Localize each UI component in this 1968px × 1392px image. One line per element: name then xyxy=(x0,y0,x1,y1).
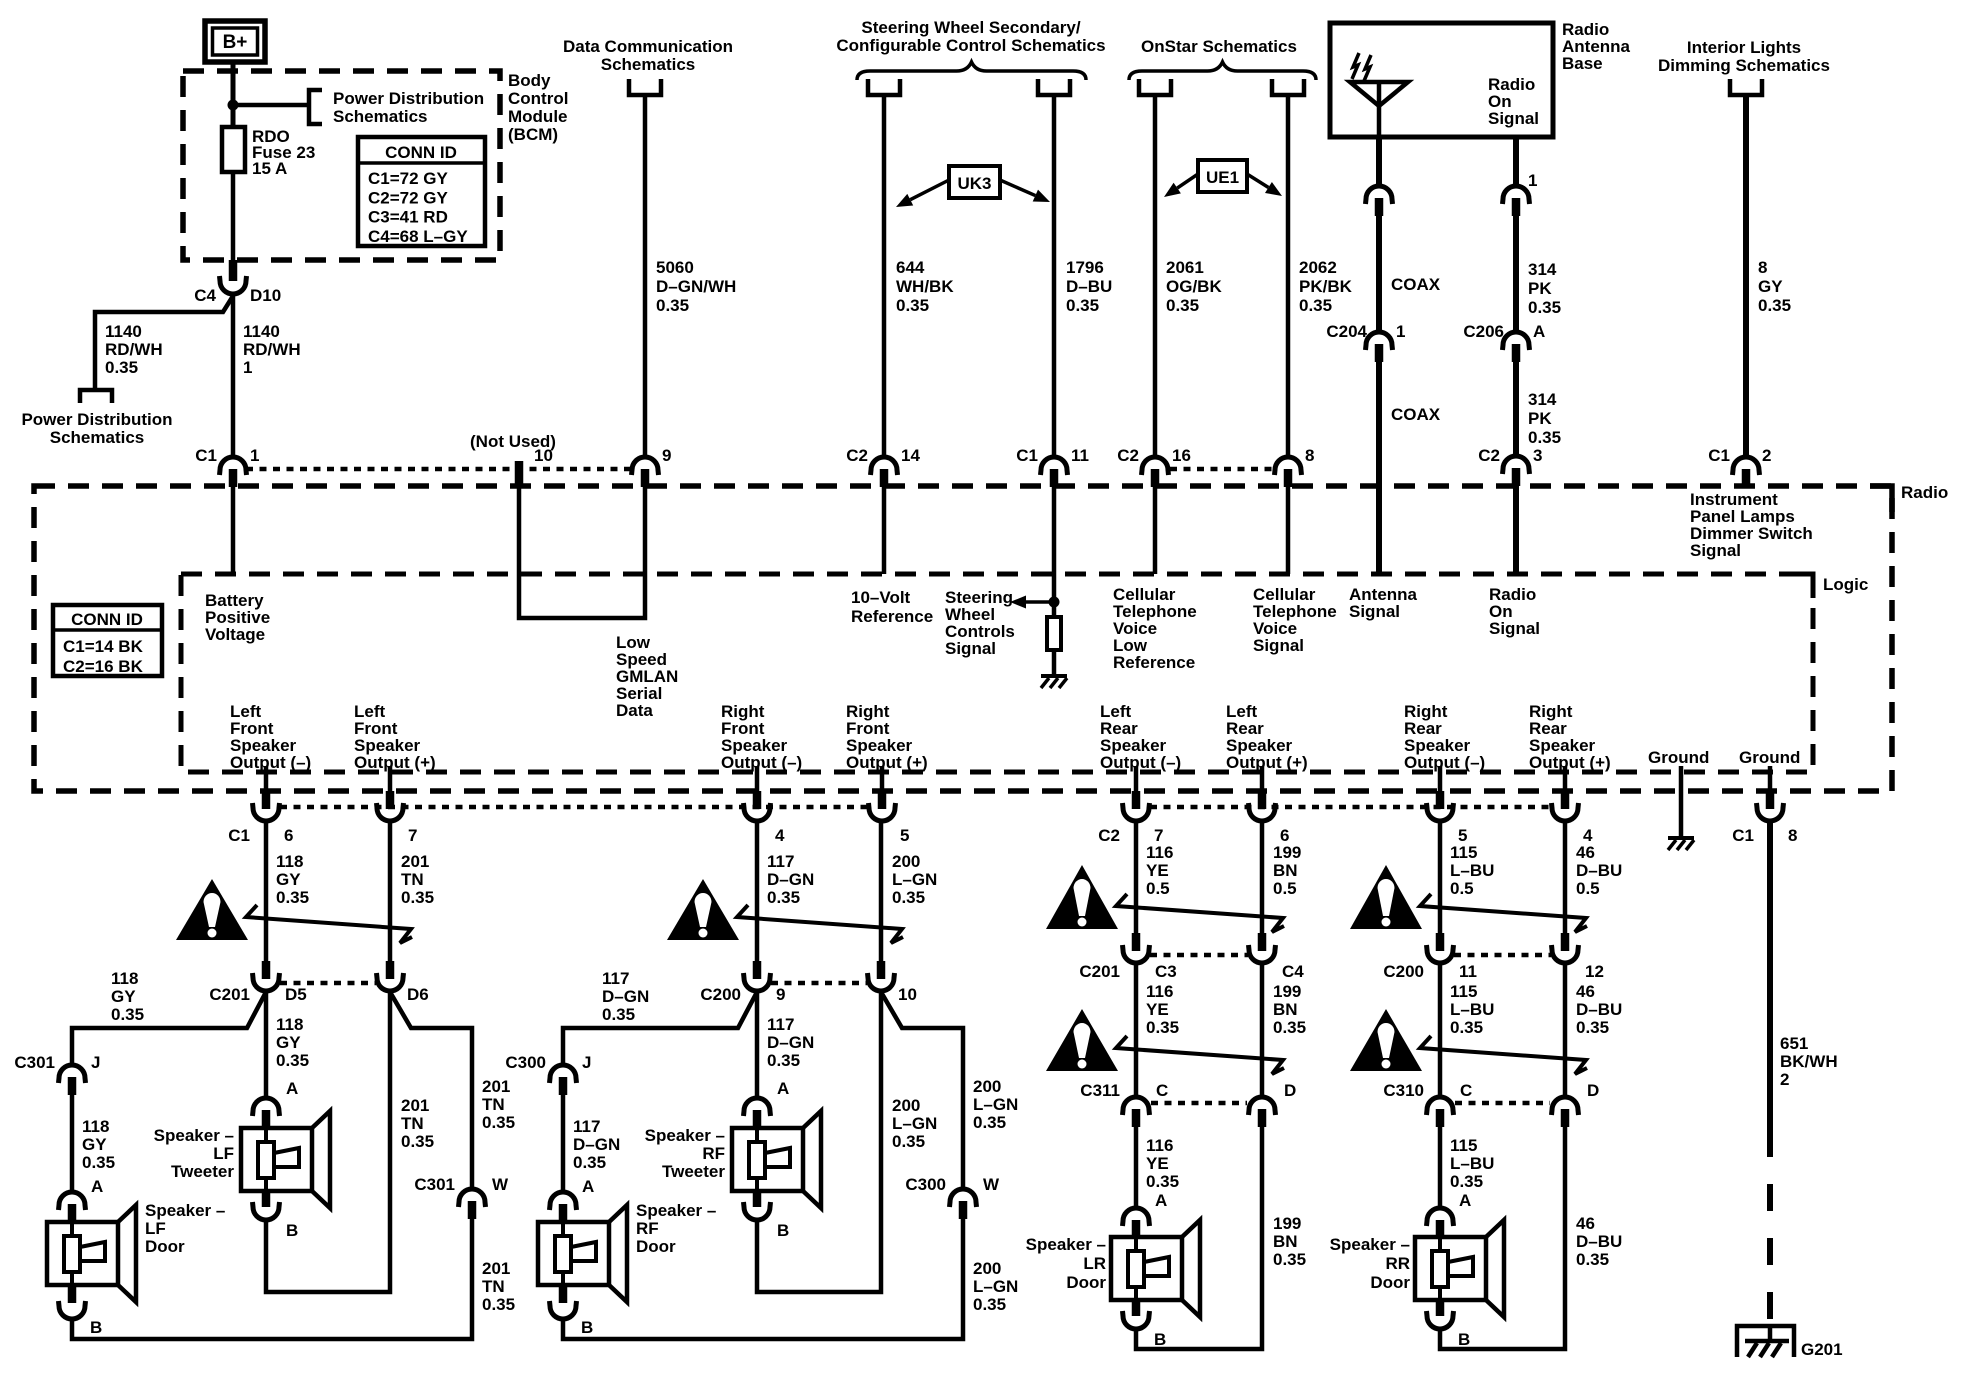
RPO code box UE1 xyxy=(1198,160,1247,192)
connector pin 7 (radio bottom) xyxy=(377,791,418,845)
svg-text:0.35: 0.35 xyxy=(1528,428,1561,447)
svg-text:Door: Door xyxy=(636,1237,676,1256)
dotted connector line C1 pins 1-10-9 xyxy=(246,467,633,472)
wire 314 PK lower xyxy=(1513,360,1519,458)
svg-text:200: 200 xyxy=(892,852,920,871)
label Ground (right) xyxy=(1739,748,1800,767)
connector C201 pin D5 xyxy=(209,961,306,1004)
label 118 GY 0.35 door LF xyxy=(82,1117,115,1172)
wire 115 door drop RR xyxy=(1438,1125,1443,1209)
label Radio On Signal (antenna box) xyxy=(1488,75,1539,128)
svg-text:0.35: 0.35 xyxy=(111,1005,144,1024)
svg-text:TN: TN xyxy=(401,870,424,889)
label Speaker LR Door xyxy=(1026,1235,1107,1292)
svg-text:Reference: Reference xyxy=(851,607,933,626)
svg-text:A: A xyxy=(91,1177,103,1196)
wire junction to Power Distribution reference xyxy=(233,103,307,108)
svg-text:0.35: 0.35 xyxy=(892,888,925,907)
svg-text:Speaker –: Speaker – xyxy=(1026,1235,1106,1254)
label OnStar Schematics xyxy=(1141,37,1297,56)
svg-text:Base: Base xyxy=(1562,54,1603,73)
connector door speaker pin A (RR) xyxy=(1427,1191,1472,1238)
wire antenna coax upper xyxy=(1376,137,1382,188)
svg-text:D–BU: D–BU xyxy=(1066,277,1112,296)
label 200 L–GN 0.35 upper RF+ xyxy=(892,852,937,907)
svg-text:0.35: 0.35 xyxy=(1576,1018,1609,1037)
svg-text:Steering Wheel Secondary/: Steering Wheel Secondary/ xyxy=(861,18,1080,37)
wire Left Front speaker output (+) stub xyxy=(388,766,393,791)
label Steering Wheel Controls Signal xyxy=(945,588,1015,658)
svg-text:0.35: 0.35 xyxy=(401,888,434,907)
wire 2062 PK/BK xyxy=(1286,95,1291,459)
label Cellular Telephone Voice Low Reference xyxy=(1113,585,1197,672)
wire branch to C300 W xyxy=(881,992,963,1190)
svg-text:J: J xyxy=(91,1053,100,1072)
svg-text:BK/WH: BK/WH xyxy=(1780,1052,1838,1071)
wire 10-volt reference stub xyxy=(882,487,887,574)
svg-text:PK: PK xyxy=(1528,409,1552,428)
svg-text:11: 11 xyxy=(1459,962,1477,981)
caution callout line RR 1 xyxy=(1420,894,1587,932)
connector C201 pin C3 xyxy=(1079,933,1176,981)
svg-text:0.35: 0.35 xyxy=(1166,296,1199,315)
connector C311 pin C xyxy=(1080,1081,1168,1127)
label 1140 RD/WH 1 xyxy=(243,322,301,377)
svg-text:2061: 2061 xyxy=(1166,258,1204,277)
svg-text:0.5: 0.5 xyxy=(1146,879,1170,898)
svg-text:WH/BK: WH/BK xyxy=(896,277,954,296)
label 46 D–BU 0.35 mid RR+ xyxy=(1576,982,1622,1037)
wire battery positive voltage stub xyxy=(231,487,236,574)
svg-text:Output (–): Output (–) xyxy=(1404,753,1485,772)
svg-text:Power Distribution: Power Distribution xyxy=(21,410,172,429)
svg-text:Dimming Schematics: Dimming Schematics xyxy=(1658,56,1830,75)
svg-text:9: 9 xyxy=(662,446,671,465)
label 199 BN 0.35 mid LR+ xyxy=(1273,982,1306,1037)
svg-text:LF: LF xyxy=(145,1219,166,1238)
svg-text:C3: C3 xyxy=(1155,962,1177,981)
ground G201 xyxy=(1737,1326,1794,1357)
svg-text:YE: YE xyxy=(1146,1000,1169,1019)
svg-text:J: J xyxy=(582,1053,591,1072)
svg-text:Power Distribution: Power Distribution xyxy=(333,89,484,108)
off-page bracket OnStar left xyxy=(1139,79,1171,95)
battery feed B+ symbol xyxy=(205,21,265,62)
svg-text:5060: 5060 xyxy=(656,258,694,277)
svg-text:D5: D5 xyxy=(285,985,307,1004)
svg-text:RR: RR xyxy=(1385,1254,1410,1273)
wire 651 BK/WH solid xyxy=(1767,820,1773,1130)
svg-text:D–GN: D–GN xyxy=(767,870,814,889)
svg-text:2062: 2062 xyxy=(1299,258,1337,277)
dotted connector line C2 pins 16-8 xyxy=(1170,467,1276,472)
label 651 BK/WH 2 xyxy=(1780,1034,1838,1089)
svg-text:1796: 1796 xyxy=(1066,258,1104,277)
svg-text:115: 115 xyxy=(1450,843,1477,862)
label Right Front Speaker Output (+) xyxy=(846,702,928,772)
connector pin 6 (radio bottom) xyxy=(1249,791,1290,845)
svg-text:0.5: 0.5 xyxy=(1576,879,1600,898)
svg-text:Door: Door xyxy=(1370,1273,1410,1292)
svg-text:A: A xyxy=(582,1177,594,1196)
svg-text:8: 8 xyxy=(1788,826,1797,845)
svg-text:116: 116 xyxy=(1146,843,1173,862)
label Power Distribution Schematics (branch) xyxy=(21,410,172,447)
svg-text:46: 46 xyxy=(1576,843,1595,862)
svg-text:W: W xyxy=(983,1175,1000,1194)
label Radio Antenna Base xyxy=(1562,20,1631,73)
svg-text:12: 12 xyxy=(1585,962,1604,981)
svg-text:TN: TN xyxy=(482,1277,505,1296)
svg-text:0.35: 0.35 xyxy=(1066,296,1099,315)
connector C301 pin J xyxy=(14,1053,100,1095)
label 201 TN 0.35 lower W LF xyxy=(482,1259,515,1314)
wire 118 GY 0.35 (L front -) xyxy=(264,820,269,966)
label Low Speed GMLAN Serial Data xyxy=(616,633,678,720)
label Antenna Signal (logic) xyxy=(1349,585,1418,621)
svg-text:C301: C301 xyxy=(14,1053,55,1072)
label Speaker LF Door xyxy=(145,1201,225,1256)
svg-text:D–GN/WH: D–GN/WH xyxy=(656,277,736,296)
connector C2 pin 14 (radio) xyxy=(846,446,920,487)
wire 117 D–GN 0.35 (R front -) xyxy=(755,820,760,966)
wire 116 YE 0.5 (L rear -) xyxy=(1134,820,1139,938)
connector door speaker pin A (RF) xyxy=(550,1177,595,1222)
svg-text:200: 200 xyxy=(892,1096,920,1115)
dotted connector line C310 C-D xyxy=(1455,1101,1550,1106)
label Radio On Signal (logic) xyxy=(1489,585,1540,638)
svg-text:Reference: Reference xyxy=(1113,653,1195,672)
wire 1140 RD/WH 0.35 branch xyxy=(95,296,233,390)
svg-text:L–BU: L–BU xyxy=(1450,861,1494,880)
label 116 YE 0.35 door LR xyxy=(1146,1136,1179,1191)
svg-text:1: 1 xyxy=(1528,171,1537,190)
svg-text:Output (+): Output (+) xyxy=(1529,753,1611,772)
svg-text:C1=14 BK: C1=14 BK xyxy=(63,637,144,656)
svg-text:B: B xyxy=(581,1318,593,1337)
warning triangle RR 2 xyxy=(1350,1009,1422,1071)
connector tweeter pin B (RF) xyxy=(744,1191,790,1240)
off-page bracket OnStar right xyxy=(1272,79,1304,95)
connector C204 pin 1 xyxy=(1326,322,1405,362)
Radio box corner tick xyxy=(1870,486,1892,512)
svg-text:Speaker –: Speaker – xyxy=(145,1201,225,1220)
wire door speaker return (LR) xyxy=(1136,1125,1262,1349)
svg-text:RD/WH: RD/WH xyxy=(105,340,163,359)
connector C1 pin 11 (radio) xyxy=(1016,446,1089,487)
connector C1 pin 1 (radio) xyxy=(195,446,259,487)
label 201 TN 0.35 mid LF xyxy=(401,1096,434,1151)
svg-text:Control: Control xyxy=(508,89,568,108)
svg-text:GY: GY xyxy=(276,1033,301,1052)
svg-text:201: 201 xyxy=(482,1077,510,1096)
ground chassis (steering controls) xyxy=(1041,676,1067,688)
connector C201 pin D6 xyxy=(377,961,429,1004)
connector door speaker pin B (LF) xyxy=(59,1285,103,1337)
svg-text:0.35: 0.35 xyxy=(1576,1250,1609,1269)
svg-text:A: A xyxy=(777,1079,789,1098)
svg-text:Data Communication: Data Communication xyxy=(563,37,733,56)
connector C300 pin J xyxy=(505,1053,591,1095)
warning triangle RF xyxy=(667,879,739,940)
wire branch to C301 J xyxy=(72,992,266,1066)
svg-text:0.35: 0.35 xyxy=(1146,1018,1179,1037)
wire door speaker return (RR) xyxy=(1440,1125,1565,1349)
label 2061 OG/BK 0.35 xyxy=(1166,258,1222,315)
svg-text:1: 1 xyxy=(243,358,252,377)
svg-text:RF: RF xyxy=(702,1144,725,1163)
label 200 L–GN 0.35 lower W RF xyxy=(973,1259,1018,1314)
svg-text:116: 116 xyxy=(1146,1136,1173,1155)
svg-text:0.5: 0.5 xyxy=(1273,879,1297,898)
svg-text:Data: Data xyxy=(616,701,653,720)
svg-text:Output (+): Output (+) xyxy=(846,753,928,772)
connector antenna coax xyxy=(1366,186,1393,216)
svg-text:10–Volt: 10–Volt xyxy=(851,588,911,607)
label Data Communication Schematics xyxy=(563,37,733,74)
svg-text:200: 200 xyxy=(973,1077,1001,1096)
svg-text:BN: BN xyxy=(1273,1232,1298,1251)
label 314 PK 0.35 upper xyxy=(1528,260,1561,317)
svg-text:D–GN: D–GN xyxy=(573,1135,620,1154)
svg-text:OnStar Schematics: OnStar Schematics xyxy=(1141,37,1297,56)
label 199 BN 0.35 lower LR xyxy=(1273,1214,1306,1269)
svg-text:UK3: UK3 xyxy=(957,174,991,193)
wire 115 L–BU 0.35 mid RR xyxy=(1438,964,1443,1098)
connector C2 pin 16 (radio) xyxy=(1117,446,1191,487)
svg-text:Signal: Signal xyxy=(945,639,996,658)
svg-text:0.35: 0.35 xyxy=(1299,296,1332,315)
svg-text:Output (–): Output (–) xyxy=(721,753,802,772)
connector door speaker pin A (LR) xyxy=(1123,1191,1168,1238)
svg-text:200: 200 xyxy=(973,1259,1001,1278)
wire steering wheel controls signal xyxy=(1052,487,1057,602)
svg-text:Signal: Signal xyxy=(1349,602,1400,621)
svg-text:TN: TN xyxy=(401,1114,424,1133)
svg-text:117: 117 xyxy=(602,969,629,988)
svg-text:GY: GY xyxy=(276,870,301,889)
caution callout line LR 1 xyxy=(1116,894,1284,932)
wire Left Rear speaker output (+) stub xyxy=(1260,766,1265,791)
wire 115 L–BU 0.5 (R rear -) xyxy=(1438,820,1443,938)
connector C1 pin 9 (radio) xyxy=(632,446,672,487)
RPO code box UK3 xyxy=(949,166,1000,198)
svg-text:C: C xyxy=(1156,1081,1168,1100)
label 118 GY 0.35 upper LF xyxy=(276,852,309,907)
svg-text:Output (–): Output (–) xyxy=(230,753,311,772)
svg-text:201: 201 xyxy=(401,1096,429,1115)
svg-text:Signal: Signal xyxy=(1488,109,1539,128)
svg-text:0.35: 0.35 xyxy=(973,1113,1006,1132)
off-page bracket steering right xyxy=(1038,79,1070,95)
svg-text:Signal: Signal xyxy=(1690,541,1741,560)
svg-text:201: 201 xyxy=(482,1259,510,1278)
svg-text:PK/BK: PK/BK xyxy=(1299,277,1353,296)
label 115 L–BU 0.35 door RR xyxy=(1450,1136,1494,1191)
svg-text:TN: TN xyxy=(482,1095,505,1114)
off-page bracket steering left xyxy=(868,79,900,95)
wire 117 to tweeter A xyxy=(755,992,760,1099)
connector pin 5 (radio bottom) xyxy=(869,791,910,845)
svg-text:Speaker –: Speaker – xyxy=(154,1126,234,1145)
wire Left Front speaker output (–) stub xyxy=(264,766,269,791)
svg-text:Logic: Logic xyxy=(1823,575,1868,594)
svg-text:C310: C310 xyxy=(1383,1081,1424,1100)
label 116 YE 0.35 mid LR xyxy=(1146,982,1179,1037)
label RDO Fuse 23 15 A xyxy=(252,127,315,178)
svg-text:LF: LF xyxy=(213,1144,234,1163)
speaker LF door xyxy=(47,1205,136,1302)
wire cellular telephone voice low reference stub xyxy=(1153,487,1158,574)
brace OnStar schematics xyxy=(1129,62,1316,80)
svg-text:9: 9 xyxy=(776,985,785,1004)
svg-text:L–GN: L–GN xyxy=(892,1114,937,1133)
connector radio on signal pin 1 xyxy=(1503,171,1538,216)
radio antenna base box xyxy=(1330,23,1553,137)
connector pin 4 (radio bottom) xyxy=(1552,791,1594,845)
svg-text:Ground: Ground xyxy=(1739,748,1800,767)
warning triangle LR 2 xyxy=(1046,1009,1118,1071)
svg-text:11: 11 xyxy=(1071,446,1089,465)
speaker LR door xyxy=(1111,1220,1200,1317)
svg-text:118: 118 xyxy=(276,1015,303,1034)
svg-text:1140: 1140 xyxy=(105,322,142,341)
svg-text:C2: C2 xyxy=(1117,446,1139,465)
svg-text:6: 6 xyxy=(284,826,293,845)
svg-text:1: 1 xyxy=(1396,322,1405,341)
caution callout line LR 2 xyxy=(1116,1036,1284,1074)
caution callout line LF xyxy=(246,905,412,943)
label 118 GY 0.35 tweeter LF xyxy=(276,1015,309,1070)
svg-text:A: A xyxy=(1155,1191,1167,1210)
svg-text:C1: C1 xyxy=(1732,826,1754,845)
wire radio on signal upper xyxy=(1513,137,1519,188)
svg-text:0.35: 0.35 xyxy=(573,1153,606,1172)
junction steering wheel controls xyxy=(1049,597,1060,608)
svg-text:C204: C204 xyxy=(1326,322,1367,341)
connector C1 pin 10 stub (Not Used) xyxy=(470,432,556,487)
svg-text:117: 117 xyxy=(573,1117,600,1136)
svg-text:1140: 1140 xyxy=(243,322,280,341)
svg-text:C4: C4 xyxy=(1282,962,1304,981)
svg-text:314: 314 xyxy=(1528,260,1557,279)
label 200 L–GN 0.35 mid RF xyxy=(892,1096,937,1151)
dotted connector line C2 pins 7-6-5-4 xyxy=(1150,805,1551,810)
dotted connector line C201 C3-C4 xyxy=(1150,953,1248,958)
label 314 PK 0.35 lower xyxy=(1528,390,1561,447)
svg-text:Signal: Signal xyxy=(1489,619,1540,638)
label G201 xyxy=(1801,1340,1843,1359)
svg-text:0.35: 0.35 xyxy=(276,888,309,907)
wire ground stub internal xyxy=(1679,766,1684,836)
svg-text:D6: D6 xyxy=(407,985,429,1004)
CONN ID table (radio) xyxy=(53,605,162,676)
label 10-Volt Reference xyxy=(851,588,933,626)
svg-text:C2=16 BK: C2=16 BK xyxy=(63,657,144,676)
svg-text:1: 1 xyxy=(250,446,259,465)
wire 200 L–GN 0.35 (R front +) xyxy=(879,820,884,966)
wire Right Rear speaker output (+) stub xyxy=(1563,766,1568,791)
svg-text:0.35: 0.35 xyxy=(892,1132,925,1151)
svg-text:GY: GY xyxy=(1758,277,1783,296)
svg-text:C201: C201 xyxy=(1079,962,1120,981)
dotted connector line C200 9-10 xyxy=(771,981,867,986)
label 117 D–GN 0.35 upper RF xyxy=(767,852,814,907)
label Right Rear Speaker Output (+) xyxy=(1529,702,1611,772)
Radio dashed box xyxy=(34,486,1892,791)
svg-text:0.35: 0.35 xyxy=(276,1051,309,1070)
junction node on B+ feed xyxy=(228,100,239,111)
wire fuse to connector C4 xyxy=(231,172,236,262)
label Instrument Panel Lamps Dimmer Switch Signal xyxy=(1690,490,1813,560)
label 116 YE 0.5 upper LR xyxy=(1146,843,1173,898)
svg-text:0.35: 0.35 xyxy=(1146,1172,1179,1191)
connector C2 pin 8 (radio) xyxy=(1275,446,1315,487)
svg-text:14: 14 xyxy=(901,446,920,465)
svg-text:118: 118 xyxy=(111,969,138,988)
label 1796 D-BU 0.35 xyxy=(1066,258,1112,315)
speaker RR door xyxy=(1415,1220,1504,1317)
connector C206 pin A xyxy=(1463,322,1545,362)
label 117 D–GN 0.35 branch RF xyxy=(602,969,649,1024)
svg-text:201: 201 xyxy=(401,852,429,871)
connector C4 pin D10 xyxy=(194,260,281,305)
svg-text:C1=72 GY: C1=72 GY xyxy=(368,169,449,188)
svg-text:Radio: Radio xyxy=(1901,483,1948,502)
label 115 L–BU 0.35 mid RR xyxy=(1450,982,1494,1037)
label 117 D–GN 0.35 tweeter RF xyxy=(767,1015,814,1070)
label Right Rear Speaker Output (–) xyxy=(1404,702,1485,772)
svg-text:C300: C300 xyxy=(905,1175,946,1194)
svg-text:C3=41 RD: C3=41 RD xyxy=(368,208,448,227)
svg-text:C1: C1 xyxy=(195,446,217,465)
svg-text:D–BU: D–BU xyxy=(1576,1232,1622,1251)
svg-text:0.35: 0.35 xyxy=(767,1051,800,1070)
svg-text:2: 2 xyxy=(1762,446,1771,465)
wire branch to C301 W xyxy=(390,992,472,1190)
off-page bracket Power Distribution (BCM) xyxy=(309,90,322,124)
label 199 BN 0.5 upper LR+ xyxy=(1273,843,1301,898)
svg-text:0.35: 0.35 xyxy=(1273,1018,1306,1037)
connector tweeter pin B (LF) xyxy=(253,1191,299,1240)
label Power Distribution Schematics (BCM) xyxy=(333,89,484,126)
svg-text:CONN ID: CONN ID xyxy=(71,610,143,629)
svg-text:Door: Door xyxy=(1066,1273,1106,1292)
wire COAX lower xyxy=(1376,360,1382,574)
label 117 D–GN 0.35 door RF xyxy=(573,1117,620,1172)
svg-text:0.35: 0.35 xyxy=(401,1132,434,1151)
svg-text:Output (+): Output (+) xyxy=(354,753,436,772)
warning triangle RR 1 xyxy=(1350,865,1422,929)
svg-text:D–BU: D–BU xyxy=(1576,861,1622,880)
svg-text:Configurable Control Schematic: Configurable Control Schematics xyxy=(836,36,1105,55)
label 46 D–BU 0.35 lower RR xyxy=(1576,1214,1622,1269)
svg-text:W: W xyxy=(492,1175,509,1194)
wire door speaker return (RF) xyxy=(563,1217,963,1339)
svg-text:RF: RF xyxy=(636,1219,659,1238)
svg-text:C2: C2 xyxy=(1098,826,1120,845)
connector C310 pin C xyxy=(1383,1081,1472,1127)
svg-text:314: 314 xyxy=(1528,390,1557,409)
svg-text:LR: LR xyxy=(1083,1254,1106,1273)
speaker RF door xyxy=(538,1205,627,1302)
svg-text:116: 116 xyxy=(1146,982,1173,1001)
connector C200 pin 12 xyxy=(1552,933,1604,981)
dotted connector line C200 11-12 xyxy=(1454,953,1551,958)
svg-text:C206: C206 xyxy=(1463,322,1504,341)
svg-text:0.35: 0.35 xyxy=(482,1295,515,1314)
svg-text:C200: C200 xyxy=(1383,962,1424,981)
